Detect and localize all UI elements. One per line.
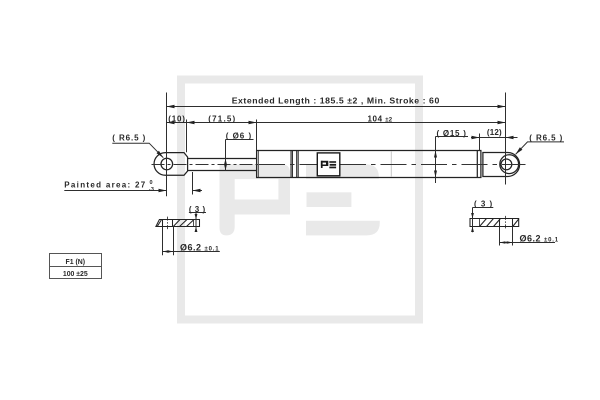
R6.5 left leader — [112, 143, 163, 158]
extended length arrows — [167, 105, 175, 108]
ext line left eye center — [166, 93, 168, 197]
painted area arrows — [159, 189, 167, 192]
ext line right eye center — [505, 93, 507, 185]
svg-text:F1 (N): F1 (N) — [66, 259, 86, 266]
diameter 6.2 right ext lines — [499, 227, 501, 246]
piston rod top edge — [188, 158, 257, 160]
arrowheads — [157, 105, 523, 192]
svg-text:Painted area: 27: Painted area: 27 — [64, 181, 146, 190]
dim line (12) — [471, 137, 518, 139]
(3) right dim — [473, 207, 494, 209]
svg-text:(10): (10) — [168, 115, 185, 124]
tube end line — [476, 151, 478, 178]
svg-text:-3: -3 — [149, 187, 154, 193]
section bar outline — [156, 220, 200, 227]
left eyelet body — [154, 153, 188, 176]
diameter6 arrows — [224, 159, 227, 165]
watermark letter E top bar — [306, 164, 379, 179]
hole edge lines — [162, 220, 164, 227]
svg-text:±0.1: ±0.1 — [205, 247, 220, 253]
dim line painted area — [64, 190, 166, 192]
dim line extended length — [167, 106, 506, 108]
gas spring outline drawing — [154, 151, 520, 178]
watermark P counter (white hole) — [235, 179, 279, 199]
piston rod bottom edge — [188, 170, 257, 172]
watermark letter E middle bar — [307, 192, 352, 207]
F1 value table — [50, 254, 102, 279]
section bar outline — [470, 219, 519, 227]
R6.5 leader arrowheads — [157, 151, 164, 158]
svg-text:(12): (12) — [487, 128, 502, 137]
svg-text:(71.5): (71.5) — [208, 115, 236, 124]
R6.5 right leader — [516, 142, 564, 154]
hole edge lines — [499, 219, 501, 227]
svg-text:100 ±25: 100 ±25 — [63, 271, 88, 278]
svg-text:Ø6.2: Ø6.2 — [180, 243, 202, 253]
svg-text:( R6.5 ): ( R6.5 ) — [529, 133, 563, 142]
svg-text:0: 0 — [150, 180, 153, 186]
svg-text:104: 104 — [368, 115, 383, 124]
tube collar inner lines — [257, 151, 259, 178]
dim line diameter6 vertical — [225, 140, 227, 171]
svg-text:±2: ±2 — [385, 118, 392, 124]
cylinder tube outline — [257, 151, 481, 178]
svg-text:( Ø15 ): ( Ø15 ) — [437, 129, 467, 138]
dim line row 2 — [167, 122, 506, 124]
right eyelet hole — [501, 159, 512, 170]
svg-text:( 3 ): ( 3 ) — [189, 205, 206, 214]
watermark letter P stem — [220, 164, 235, 235]
texts — [232, 95, 440, 105]
logo letter E bars — [329, 161, 336, 163]
dim line diameter15 vertical — [435, 137, 437, 184]
svg-text:Ø6.2: Ø6.2 — [520, 234, 542, 244]
svg-text:Extended Length : 185.5 ±2 ,: Extended Length : 185.5 ±2 , Min. Stroke… — [232, 95, 440, 105]
centerline (dash-dot) — [152, 164, 259, 166]
faint section line on tube — [390, 151, 392, 177]
ext line tube end — [479, 134, 481, 151]
center mark — [505, 216, 507, 229]
row2 arrows — [167, 121, 175, 124]
dimension lines — [64, 93, 564, 197]
bottom left section view — [156, 217, 200, 230]
ext line rod/tube junction — [256, 120, 258, 151]
logo letter P — [321, 161, 328, 166]
svg-text:( R6.5 ): ( R6.5 ) — [112, 133, 146, 142]
right eyelet outer circle — [500, 155, 519, 174]
(12) arrows — [472, 136, 480, 139]
(3) left dim — [189, 212, 206, 214]
watermark letter P bowl — [220, 164, 291, 214]
diameter15 arrows — [434, 151, 437, 158]
svg-text:( Ø6 ): ( Ø6 ) — [226, 131, 252, 140]
left eyelet hole — [161, 158, 173, 170]
logo P counter — [323, 163, 326, 165]
right eyelet bracket — [483, 153, 520, 177]
hatching — [157, 220, 161, 227]
ext line painted area right — [192, 172, 194, 195]
PE logo box on cylinder (white filled) — [317, 153, 340, 176]
svg-text:( 3 ): ( 3 ) — [474, 199, 493, 208]
hatching — [480, 219, 487, 227]
diameter 6.2 right dim line — [500, 242, 556, 244]
diameter 6.2 left dim line — [163, 251, 220, 253]
svg-text:±0.1: ±0.1 — [544, 238, 559, 244]
watermark letter E bottom bar — [306, 221, 380, 236]
bottom right section view — [470, 216, 519, 229]
watermark frame (PE logo box, light gray) — [177, 76, 423, 324]
ext line x=186.8 — [186, 120, 188, 153]
diameter 6.2 left ext lines — [162, 227, 164, 256]
center mark — [167, 217, 169, 230]
